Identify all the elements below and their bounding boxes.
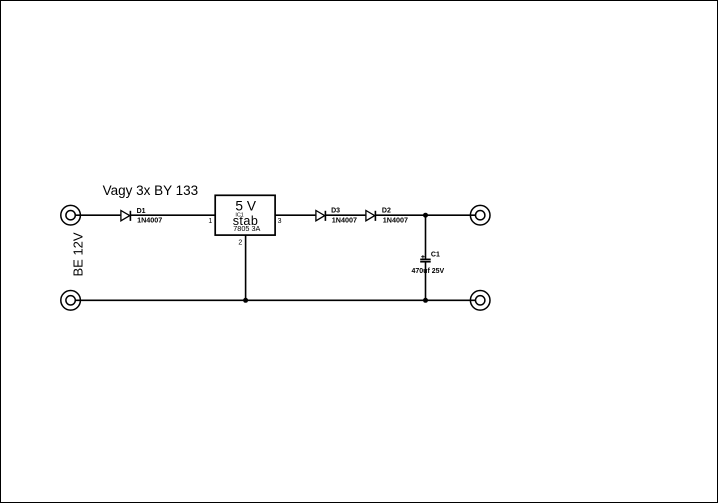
junction node bottom (C1) [423,298,428,303]
wire: D3 cathode to D2 anode [325,214,365,216]
svg-text:1N4007: 1N4007 [383,216,408,225]
capacitor C1 [420,255,431,262]
junction node bottom (pin 2) [243,298,248,303]
svg-text:D1: D1 [137,208,146,215]
diode D2 [366,211,376,221]
diode D3 [316,211,326,221]
diode D1 [121,211,130,221]
svg-text:D2: D2 [382,208,391,215]
wire top rail: terminal J1 to D1 anode [76,214,121,216]
terminal J1 top-left [61,205,81,225]
svg-text:Vagy 3x BY 133: Vagy 3x BY 133 [103,183,199,198]
svg-text:1N4007: 1N4007 [137,216,162,225]
op-amp / regulator IC1 box [215,195,275,235]
svg-text:2: 2 [238,240,242,247]
wire: IC1 pin 3 to D3 anode [275,214,315,216]
svg-text:7805 3A: 7805 3A [233,224,260,233]
svg-text:1N4007: 1N4007 [332,216,357,225]
wire: IC1 pin 2 to bottom rail [245,235,247,300]
svg-text:D3: D3 [331,208,340,215]
wire: D2 cathode to terminal J3 [375,214,475,216]
wire: top junction down to C1 [425,215,427,259]
wire: C1 to bottom rail [425,262,427,301]
svg-text:BE 12V: BE 12V [70,232,85,276]
svg-text:1: 1 [208,218,212,225]
wire: D1 cathode to IC1 pin 1 [130,214,215,216]
terminal J3 top-right [470,205,490,225]
junction node top (C1 tap) [423,213,428,218]
wire bottom rail [76,299,476,301]
svg-text:470uf 25V: 470uf 25V [412,268,445,275]
terminal J2 bottom-left [61,291,81,311]
svg-text:C1: C1 [431,252,440,259]
terminal J4 bottom-right [470,291,490,311]
svg-text:3: 3 [278,218,282,225]
